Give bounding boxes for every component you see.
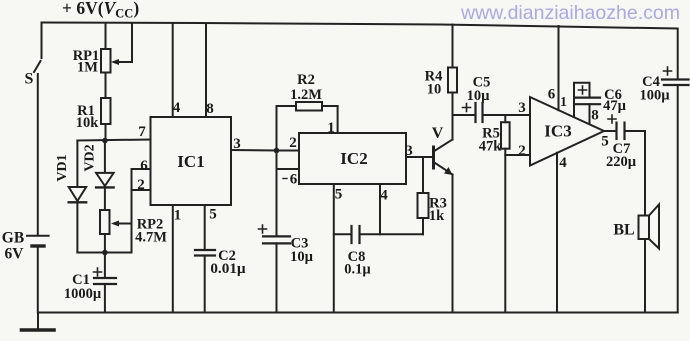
transistor Q1 (V) <box>434 115 453 313</box>
svg-text:6: 6 <box>140 158 148 174</box>
svg-text:10µ: 10µ <box>290 249 314 265</box>
svg-text:1k: 1k <box>429 208 445 224</box>
diode VD1 <box>69 141 87 253</box>
capacitor C5 <box>453 103 531 122</box>
svg-text:3: 3 <box>518 100 526 116</box>
wire IC2 pin 5 <box>333 184 335 313</box>
capacitor C6 <box>575 86 601 104</box>
potentiometer RP2 <box>100 210 132 253</box>
svg-text:0.01µ: 0.01µ <box>210 260 246 277</box>
svg-text:IC2: IC2 <box>340 149 367 168</box>
node A (R1 / VD1 / VD2 / pin7 junction) <box>77 138 150 144</box>
svg-text:3: 3 <box>405 143 413 159</box>
resistor R5 <box>501 115 530 313</box>
svg-text:1000µ: 1000µ <box>64 286 102 302</box>
wire IC1 pin 5 <box>204 205 206 250</box>
capacitor C4 <box>662 29 689 313</box>
svg-text:IC3: IC3 <box>544 122 571 141</box>
svg-text:8: 8 <box>591 108 599 124</box>
svg-text:3: 3 <box>233 136 241 152</box>
ground <box>22 313 55 331</box>
svg-text:6: 6 <box>548 87 556 103</box>
wire VD bottom bus <box>77 169 131 255</box>
potentiometer RP1 <box>101 23 132 98</box>
capacitor C1 <box>94 253 117 313</box>
resistor R2 <box>277 102 338 111</box>
wire IC1 pin 1 <box>172 205 174 313</box>
op-amp U3: amplifier IC3 triangle <box>530 97 604 166</box>
svg-text:IC1: IC1 <box>177 152 204 171</box>
capacitor C2 <box>195 250 215 313</box>
wire IC3 pin 4 <box>556 153 558 313</box>
svg-text:10: 10 <box>427 82 442 98</box>
svg-text:5: 5 <box>601 134 609 150</box>
wire IC1 pin 4 <box>172 23 174 117</box>
wire bottom ground rail <box>38 312 678 314</box>
wire IC1 pin 2 <box>132 189 151 191</box>
diode VD2 <box>96 141 114 211</box>
resistor R4 <box>448 25 457 116</box>
wire IC2 pin 1 <box>337 106 339 133</box>
svg-text:VD2: VD2 <box>83 144 98 171</box>
wire IC2 pin 6 <box>277 168 300 170</box>
svg-text:220µ: 220µ <box>606 154 637 170</box>
wire IC1 pin 3 <box>231 149 277 152</box>
speaker BL <box>639 131 660 313</box>
svg-text:4: 4 <box>380 188 388 204</box>
wire top +6V rail <box>42 23 677 29</box>
svg-text:4: 4 <box>173 100 181 116</box>
wire IC3 pin 8 <box>589 104 591 124</box>
svg-text:R2: R2 <box>297 72 315 88</box>
svg-text:5: 5 <box>335 187 343 203</box>
svg-text:GB: GB <box>2 230 24 247</box>
svg-text:2: 2 <box>518 143 526 159</box>
svg-text:6: 6 <box>290 172 298 188</box>
svg-text:6V: 6V <box>5 246 25 263</box>
svg-text:2: 2 <box>137 177 145 193</box>
svg-text:VD1: VD1 <box>55 154 70 181</box>
svg-text:V: V <box>432 125 444 142</box>
wire IC2 pin 4 <box>379 184 381 234</box>
switch S <box>34 23 42 235</box>
svg-text:1: 1 <box>560 94 567 109</box>
svg-text:1.2M: 1.2M <box>290 87 322 103</box>
svg-text:47k: 47k <box>479 139 503 155</box>
svg-text:7: 7 <box>138 124 146 140</box>
op-amp U1: timer IC1 box <box>151 117 232 205</box>
svg-text:5: 5 <box>209 207 217 223</box>
svg-text:47µ: 47µ <box>603 98 627 114</box>
node B (IC1 pin3 / IC2 pin2 / R2 / C3) <box>274 106 299 236</box>
svg-text:www.dianziaihaozhe.com: www.dianziaihaozhe.com <box>460 2 680 24</box>
svg-text:+ 6V(VCC): + 6V(VCC) <box>62 0 139 21</box>
svg-text:1M: 1M <box>77 60 98 76</box>
wire IC3 pin 6 <box>558 26 560 110</box>
wire IC1 pin 8 <box>205 24 207 118</box>
svg-text:100µ: 100µ <box>639 88 670 104</box>
svg-text:4.7M: 4.7M <box>135 230 167 246</box>
svg-text:1: 1 <box>174 208 182 224</box>
svg-text:S: S <box>25 71 34 88</box>
capacitor C7 <box>604 115 645 139</box>
wire IC2 pin 3 <box>406 156 432 158</box>
wire IC3 pin 1 <box>574 83 590 117</box>
resistor R1 <box>101 98 111 140</box>
svg-text:4: 4 <box>559 155 567 171</box>
svg-text:10µ: 10µ <box>467 88 491 104</box>
svg-text:0.1µ: 0.1µ <box>344 262 371 278</box>
op-amp U2: timer IC2 box <box>299 133 406 184</box>
svg-text:BL: BL <box>613 222 634 239</box>
battery GB <box>27 236 49 313</box>
capacitor C3 <box>259 225 291 313</box>
svg-text:10k: 10k <box>76 115 100 131</box>
wire IC1 pin 6 <box>132 168 151 170</box>
resistor R3 <box>418 157 429 234</box>
svg-text:8: 8 <box>206 101 214 117</box>
svg-text:2: 2 <box>289 135 297 151</box>
capacitor C8 <box>334 226 423 243</box>
